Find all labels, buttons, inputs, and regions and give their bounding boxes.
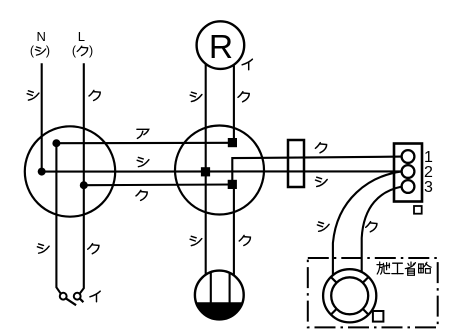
svg-text:N: N	[37, 29, 46, 44]
svg-text:L: L	[78, 29, 85, 44]
svg-text:): )	[46, 44, 50, 58]
svg-text:): )	[89, 44, 93, 58]
svg-text:R: R	[209, 29, 233, 66]
svg-text:3: 3	[424, 179, 433, 196]
